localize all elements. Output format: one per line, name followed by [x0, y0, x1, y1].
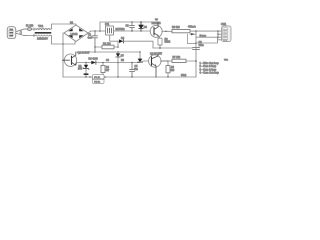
- svg-text:5V6: 5V6: [78, 69, 83, 71]
- bridge rectifier D1-D4: [64, 20, 88, 41]
- wire sense y37: [196, 36, 218, 38]
- wire R3 from Q1 right: [162, 30, 172, 32]
- resistor R1: [94, 42, 118, 48]
- node R1 right: [117, 46, 119, 48]
- cable knot: [16, 29, 27, 36]
- wire Q2 collector rail y52: [76, 51, 140, 53]
- svg-text:IC1: IC1: [105, 22, 110, 26]
- svg-text:CN1: CN1: [221, 22, 227, 26]
- legend: [200, 59, 229, 74]
- svg-text:TR1: TR1: [38, 24, 44, 28]
- bottom rail: [63, 76, 196, 78]
- svg-text:F1 250: F1 250: [26, 26, 34, 28]
- node D5 top: [140, 21, 142, 23]
- svg-text:100n: 100n: [199, 45, 205, 47]
- wire y48 to output column: [153, 47, 193, 49]
- emitter resistor R2: [158, 37, 171, 48]
- node at x63 on AC wire: [62, 43, 64, 45]
- capacitor C8: [193, 41, 205, 50]
- node C1 top: [94, 30, 96, 32]
- diode D6 horizontal: [110, 37, 153, 48]
- node rail22 corner: [99, 30, 101, 32]
- wire bridge left corner down (long vertical): [63, 33, 64, 77]
- capacitor C5: [130, 62, 139, 77]
- capacitor C2: [126, 22, 135, 31]
- meter box M1: [188, 31, 197, 77]
- svg-text:D9 4148: D9 4148: [89, 58, 99, 61]
- transistor Q2: [63, 50, 90, 66]
- svg-text:L204B: L204B: [71, 33, 78, 36]
- wire plug top to fuse: [24, 28, 27, 30]
- diode D10 at Q3 base: [138, 51, 149, 62]
- wire plug bottom to transformer: [24, 35, 36, 37]
- svg-text:P1 2k: P1 2k: [94, 77, 100, 79]
- connector CN1: [221, 22, 231, 41]
- svg-text:B1: B1: [70, 20, 74, 24]
- transformer terminal ticks: [33, 28, 35, 37]
- diode D7 vertical on x118: [116, 52, 125, 77]
- node C2 top: [131, 21, 133, 23]
- wire Q2 emitter rail y62.5: [77, 62, 92, 64]
- svg-text:R7 10k: R7 10k: [173, 56, 181, 59]
- svg-text:Sense: Sense: [200, 36, 207, 38]
- svg-text:2N3055: 2N3055: [152, 21, 162, 25]
- wire secondary top to bridge top: [50, 24, 76, 29]
- transistor Q1: [150, 19, 162, 37]
- node column x218: [217, 30, 221, 39]
- resistor R4: [101, 62, 110, 77]
- resistor R7: [168, 56, 196, 62]
- svg-text:4 - Com Out Amp: 4 - Com Out Amp: [200, 72, 220, 75]
- regulator IC1: [103, 22, 125, 41]
- diode D5: [139, 22, 148, 31]
- svg-text:4m7: 4m7: [88, 36, 93, 39]
- svg-text:R3 1k0: R3 1k0: [172, 26, 180, 29]
- output column x196: [195, 30, 197, 32]
- diode D9: [89, 58, 141, 65]
- svg-text:P2 2k: P2 2k: [94, 82, 100, 84]
- node C1 bottom on y52: [94, 51, 96, 53]
- svg-text:115/230V: 115/230V: [37, 37, 48, 41]
- wire up to collector rail: [100, 22, 158, 31]
- wire secondary bottom down and to bridge bottom: [50, 36, 75, 45]
- wire R3 right to node: [190, 30, 218, 32]
- svg-text:470mA: 470mA: [188, 25, 196, 28]
- fuse F1: [27, 28, 31, 31]
- wire bridge DC+ to IC: [88, 31, 103, 33]
- resistor R6: [166, 61, 175, 77]
- wire IC out to Q1 base: [116, 30, 151, 32]
- capacitor C1: [88, 31, 98, 52]
- svg-text:R1 2k2: R1 2k2: [103, 42, 111, 45]
- transformer TR1: [35, 24, 51, 40]
- transistor Q3: [149, 52, 168, 77]
- potentiometer P1: [89, 75, 106, 84]
- mains plug X1: [7, 27, 16, 39]
- node wire to CN pin3: [195, 42, 197, 44]
- svg-text:0Volt: 0Volt: [181, 74, 186, 77]
- resistor R3: [172, 26, 190, 33]
- svg-text:0R22: 0R22: [165, 41, 171, 44]
- node Q3 collector: [167, 60, 169, 62]
- zener D8: [78, 63, 89, 78]
- wire fuse to transformer: [32, 28, 36, 30]
